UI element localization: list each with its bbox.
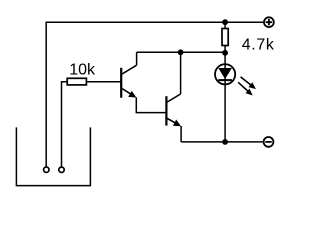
transistor Q2 (NPN) [166,94,181,126]
junction: top rail / 4.7k resistor [222,19,228,25]
positive supply terminal [264,17,274,27]
LED light arrow 1 [241,77,256,89]
wire: Q2 collector up to junction on collector rail [180,52,182,94]
probe electrode 1 [44,167,49,172]
transistor Q1 (NPN) [121,65,136,98]
wire: negative bottom rail [181,141,263,143]
junction: Q2 collector / collector rail [178,49,184,55]
wire: 4.7k resistor bottom stub [224,46,226,53]
wire: Q1 collector up to collector rail [136,52,138,65]
wire: Q1 emitter down and across to Q2 base [136,97,166,112]
probe electrode 2 [59,167,64,172]
svg-text:4.7k: 4.7k [242,36,275,53]
wire: 10k resistor to Q1 base [86,81,121,83]
container (water cup) [16,127,90,185]
wire: Q2 emitter down to bottom rail [180,126,182,142]
wire: left frame from top rail down to probe 1 [45,22,47,167]
junction: collector rail / resistor / LED anode [222,50,228,56]
LED D1 [215,64,235,84]
negative supply terminal [264,137,274,147]
wire: probe 2 riser to 10k resistor [62,82,68,167]
wire: collector rail (Q1/Q2 collectors to LED node) [137,51,226,53]
svg-text:10k: 10k [69,62,96,79]
wire: LED branch vertical (anode stub through to bottom rail) [224,53,226,142]
junction: LED cathode / bottom rail [222,139,228,145]
wire: 4.7k resistor top stub [224,22,226,28]
resistor 4.7k body [222,29,228,46]
wire: positive top rail [46,21,263,23]
resistor 10k body [67,78,86,85]
LED light arrow 2 [238,82,253,95]
